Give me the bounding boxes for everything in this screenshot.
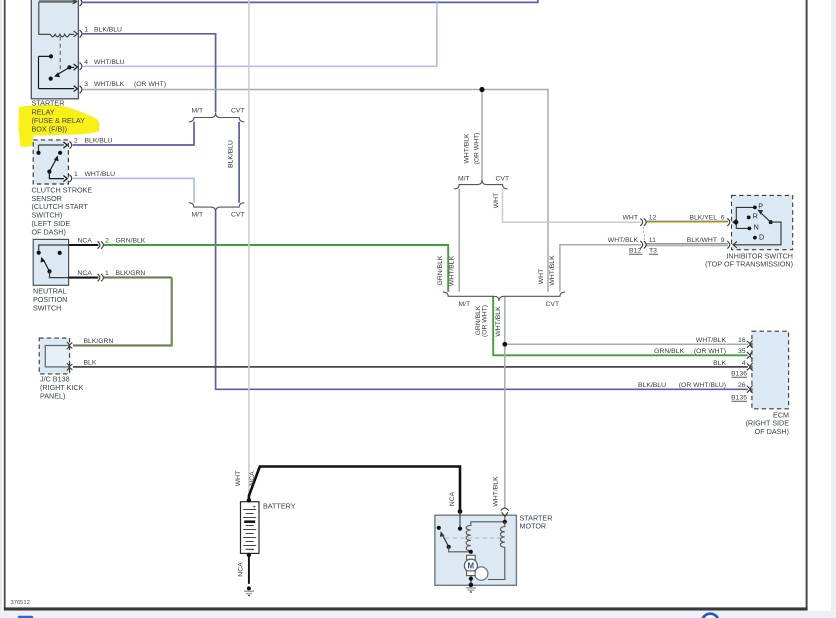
wire NCA from neutral position switch pin 1 [69,277,99,279]
inhibitor pin 9 connector [727,241,737,249]
svg-text:(OR WHT): (OR WHT) [694,348,726,355]
battery ground [244,586,254,595]
svg-text:4: 4 [742,360,746,367]
svg-text:BLK/BLU: BLK/BLU [94,26,122,33]
WHT/BLK connector into starter motor [501,508,509,522]
svg-text:CVT: CVT [546,301,560,308]
relay armature dashed link [59,37,61,70]
NPS pin labels [78,237,146,277]
connector dashed link [643,227,644,240]
svg-text:BLK/BLU: BLK/BLU [227,140,234,168]
ECM pin 35 connector [747,352,753,360]
ECM pin 4 connector [747,363,753,371]
svg-text:P: P [758,201,763,210]
wire BLK/YEL from connector 12 to inhibitor pin 6 [647,221,729,222]
svg-text:NCA: NCA [78,237,93,244]
svg-text:WHT/BLK: WHT/BLK [464,133,471,164]
relay coil to pin1 arrow [74,31,78,37]
wire BLK/BLU (OR WHT/BLU) from brace to ECM pin 26 [216,211,748,389]
svg-text:M: M [468,561,475,570]
relay coil [50,34,74,37]
J/C B138 outer dashed box [39,338,69,374]
relay switch [39,54,78,91]
svg-text:26: 26 [738,382,746,389]
svg-text:B12: B12 [629,248,641,255]
svg-text:N: N [754,223,759,232]
J/C wire labels [84,338,114,367]
starter pinion gear circle [475,567,488,580]
svg-text:BOX (F/B)): BOX (F/B)) [32,125,68,134]
junction dot WHT/BLK [479,87,484,92]
svg-text:R: R [753,211,758,220]
svg-text:B135: B135 [731,395,747,402]
relay coil circuit inner rectangle [39,0,77,34]
svg-text:BATTERY: BATTERY [263,501,296,510]
svg-text:WHT/BLU: WHT/BLU [85,171,116,178]
ECM wire labels [638,337,747,402]
relay pin labels [84,26,166,88]
wire BLK/BLU from relay pin 1 to M/T brace [83,34,216,113]
wire BLK/WHT from connector 11 to inhibitor pin 9 [647,244,729,246]
relay pin 1 connector [80,30,82,37]
brace M/T CVT rejoin above ECM wire [189,203,245,212]
relay top pin connector [80,0,82,6]
svg-text:M/T: M/T [192,108,204,115]
svg-text:NCA: NCA [78,270,93,277]
neutral position switch caption [33,287,67,313]
wire BLK from J/C B138 to ECM pin 4 [73,366,748,368]
wire WHT/BLK branch to ECM pin 16 [505,343,748,345]
brace M/T CVT split of WHT/BLK [454,180,508,189]
inhibitor switch caption [705,251,793,268]
svg-text:WHT/BLK: WHT/BLK [608,237,639,244]
starter motor top entry dot [458,509,463,514]
J/C B138 upper connector [67,342,72,349]
starter motor switch [437,526,471,552]
svg-text:BLK/BLU: BLK/BLU [638,382,666,389]
svg-text:(OR WHT/BLU): (OR WHT/BLU) [679,382,726,389]
wire WHT/BLK branch from junction to M/T CVT brace [481,90,483,180]
svg-text:2: 2 [74,137,78,144]
starter motor solenoid feed [459,511,461,528]
svg-text:376512: 376512 [11,600,30,606]
starter relay caption [32,99,86,134]
wire WHT/BLK (OR WHT) from relay pin 3 [83,90,548,292]
J/C B138 inner junction box [45,346,68,367]
svg-text:NCA: NCA [237,562,244,577]
wire BLK/BLU CVT branch between braces [238,122,240,203]
battery box [241,502,260,554]
inhibitor switch wire labels [608,214,725,254]
svg-text:WHT: WHT [538,269,545,284]
starter motor caption [520,514,553,531]
toolbar icon (bottom right, cut off) [702,614,719,618]
battery negative junction dot [247,553,251,557]
svg-text:WHT/BLK: WHT/BLK [94,81,125,88]
clutch sensor pin 1 connector [69,175,71,182]
connector B12/T3 pin 12 [640,218,646,225]
svg-text:WHT/BLK: WHT/BLK [448,255,455,286]
svg-text:SWITCH: SWITCH [33,304,61,313]
connector B12/T3 pin 11 [640,241,646,248]
neutral position switch contacts [37,245,69,278]
svg-text:M/T: M/T [192,212,204,219]
svg-text:WHT/BLK: WHT/BLK [492,476,499,507]
wire BLK/BLU from relay top pin to upper right (off screen) [83,0,538,2]
neutral position switch box [33,239,68,285]
J/C B138 caption [40,375,84,401]
wire WHT/BLU riser joining top wire [436,2,438,66]
starter solenoid pull-in coil [466,520,507,554]
svg-text:(OR WHT): (OR WHT) [481,305,488,337]
starter motor M [464,555,477,587]
svg-text:4: 4 [84,59,88,66]
svg-text:M/T: M/T [458,175,470,182]
ECM pin 26 connector [747,386,753,394]
brace M/T CVT rejoin above starter motor [443,292,565,301]
svg-text:RELAY: RELAY [32,107,55,116]
wire BLK/GRN from NPS pin 1 to J/C B138 [73,277,172,346]
wire NCA from neutral position switch pin 2 [69,244,99,246]
ECM box [752,331,789,409]
svg-text:CVT: CVT [496,175,510,182]
relay pin 4 connector [80,63,82,70]
svg-text:(TOP OF TRANSMISSION): (TOP OF TRANSMISSION) [705,260,793,269]
svg-text:(OR WHT): (OR WHT) [134,81,166,88]
wire WHT/BLK from lower brace to starter motor [504,296,506,508]
wire GRN/BLK (OR WHT) from lower brace to ECM pin 35 [493,296,748,355]
J/C B138 lower connector [67,363,72,370]
svg-text:12: 12 [649,214,657,221]
svg-text:WHT: WHT [493,193,500,208]
svg-text:35: 35 [738,348,746,355]
junction dot WHT/BLK to ECM [502,342,507,347]
svg-text:6: 6 [721,214,725,221]
clutch sensor pin labels [74,137,115,177]
M/T CVT labels upper left brace [192,108,245,219]
starter motor ground [466,588,476,592]
svg-text:MOTOR: MOTOR [520,521,547,530]
svg-text:WHT/BLK: WHT/BLK [549,255,556,286]
wire WHT/BLK M/T branch down to lower brace [458,189,460,292]
svg-text:GRN/BLK: GRN/BLK [116,237,146,244]
ECM pin 16 connector [747,341,753,349]
svg-text:BLK/YEL: BLK/YEL [689,214,717,221]
svg-text:(FUSE & RELAY: (FUSE & RELAY [32,116,86,125]
inhibitor switch position letters [753,201,765,241]
inhibitor switch box [732,195,793,249]
NPS pin 2 connector [98,241,104,248]
svg-text:PANEL): PANEL) [40,392,65,401]
svg-text:1: 1 [105,270,109,277]
wire WHT from top to battery [248,0,250,498]
svg-text:OF DASH): OF DASH) [32,227,66,236]
wire WHT/BLU clutch sensor pin 1 to lower brace [73,178,194,202]
svg-text:1: 1 [74,171,78,178]
starter solenoid dashed link [446,537,502,539]
svg-text:M/T: M/T [459,301,471,308]
wire BLK/BLU clutch sensor pin 2 to brace [73,122,194,145]
svg-text:11: 11 [649,237,656,244]
wire NCA battery negative to ground [248,556,250,584]
svg-text:BLK: BLK [84,359,97,366]
svg-text:BLK: BLK [713,360,726,367]
svg-text:+: + [252,504,256,511]
wire WHT/BLU from relay pin 4 [83,65,437,67]
svg-text:BLK/GRN: BLK/GRN [84,338,114,345]
inhibitor switch internals [734,206,782,245]
relay pin 3 connector [80,86,82,93]
clutch sensor pin 2 connector [69,141,71,148]
svg-text:16: 16 [738,337,746,344]
battery positive junction dot [247,498,251,502]
svg-text:BLK/BLU: BLK/BLU [85,137,113,144]
clutch stroke sensor switch [36,142,67,182]
NPS pin 1 connector [98,274,104,281]
svg-text:3: 3 [84,81,88,88]
clutch stroke sensor box [33,140,68,184]
svg-text:CVT: CVT [231,212,245,219]
battery cells [243,504,256,554]
svg-text:GRN/BLK: GRN/BLK [654,348,684,355]
svg-text:NCA: NCA [249,471,256,486]
svg-text:B136: B136 [731,371,747,378]
svg-text:GRN/BLK: GRN/BLK [437,255,444,285]
svg-text:BLK/WHT: BLK/WHT [687,237,717,244]
svg-text:9: 9 [721,237,725,244]
svg-text:NCA: NCA [449,491,456,506]
wire WHT/BLK from inhibitor pin 11 to lower brace [560,245,641,292]
wire NCA battery positive cable to starter motor [249,467,460,512]
wire WHT CVT branch to inhibitor switch [503,189,642,222]
wire GRN/BLK from NPS pin 2 to lower brace [104,245,448,292]
svg-text:(OR WHT): (OR WHT) [474,132,481,164]
svg-text:CVT: CVT [231,108,245,115]
starter solenoid hold-in coil [488,522,505,580]
ECM caption [746,410,790,436]
svg-text:WHT/BLU: WHT/BLU [94,59,125,66]
toolbar button (bottom left, cut off) [18,616,33,618]
svg-text:WHT: WHT [623,214,638,221]
svg-text:WHT/BLK: WHT/BLK [696,337,727,344]
rotated wire labels [227,132,556,576]
svg-text:2: 2 [105,237,109,244]
brace M/T CVT split below relay pin1 wire [189,113,245,122]
svg-text:T3: T3 [649,248,657,255]
inhibitor pin 6 connector [727,218,737,226]
starter relay box [31,0,78,99]
svg-text:1: 1 [84,26,88,33]
svg-text:D: D [759,233,764,242]
clutch stroke sensor caption [32,185,93,236]
svg-text:STARTER: STARTER [32,99,65,108]
svg-text:BLK/GRN: BLK/GRN [116,270,146,277]
svg-text:OF DASH): OF DASH) [755,427,789,436]
highlighter mark over relay caption [19,105,100,147]
svg-text:WHT: WHT [235,471,242,486]
svg-text:WHT/BLK: WHT/BLK [495,306,502,337]
M/T CVT labels middle braces [458,175,559,307]
starter motor box [435,515,517,585]
